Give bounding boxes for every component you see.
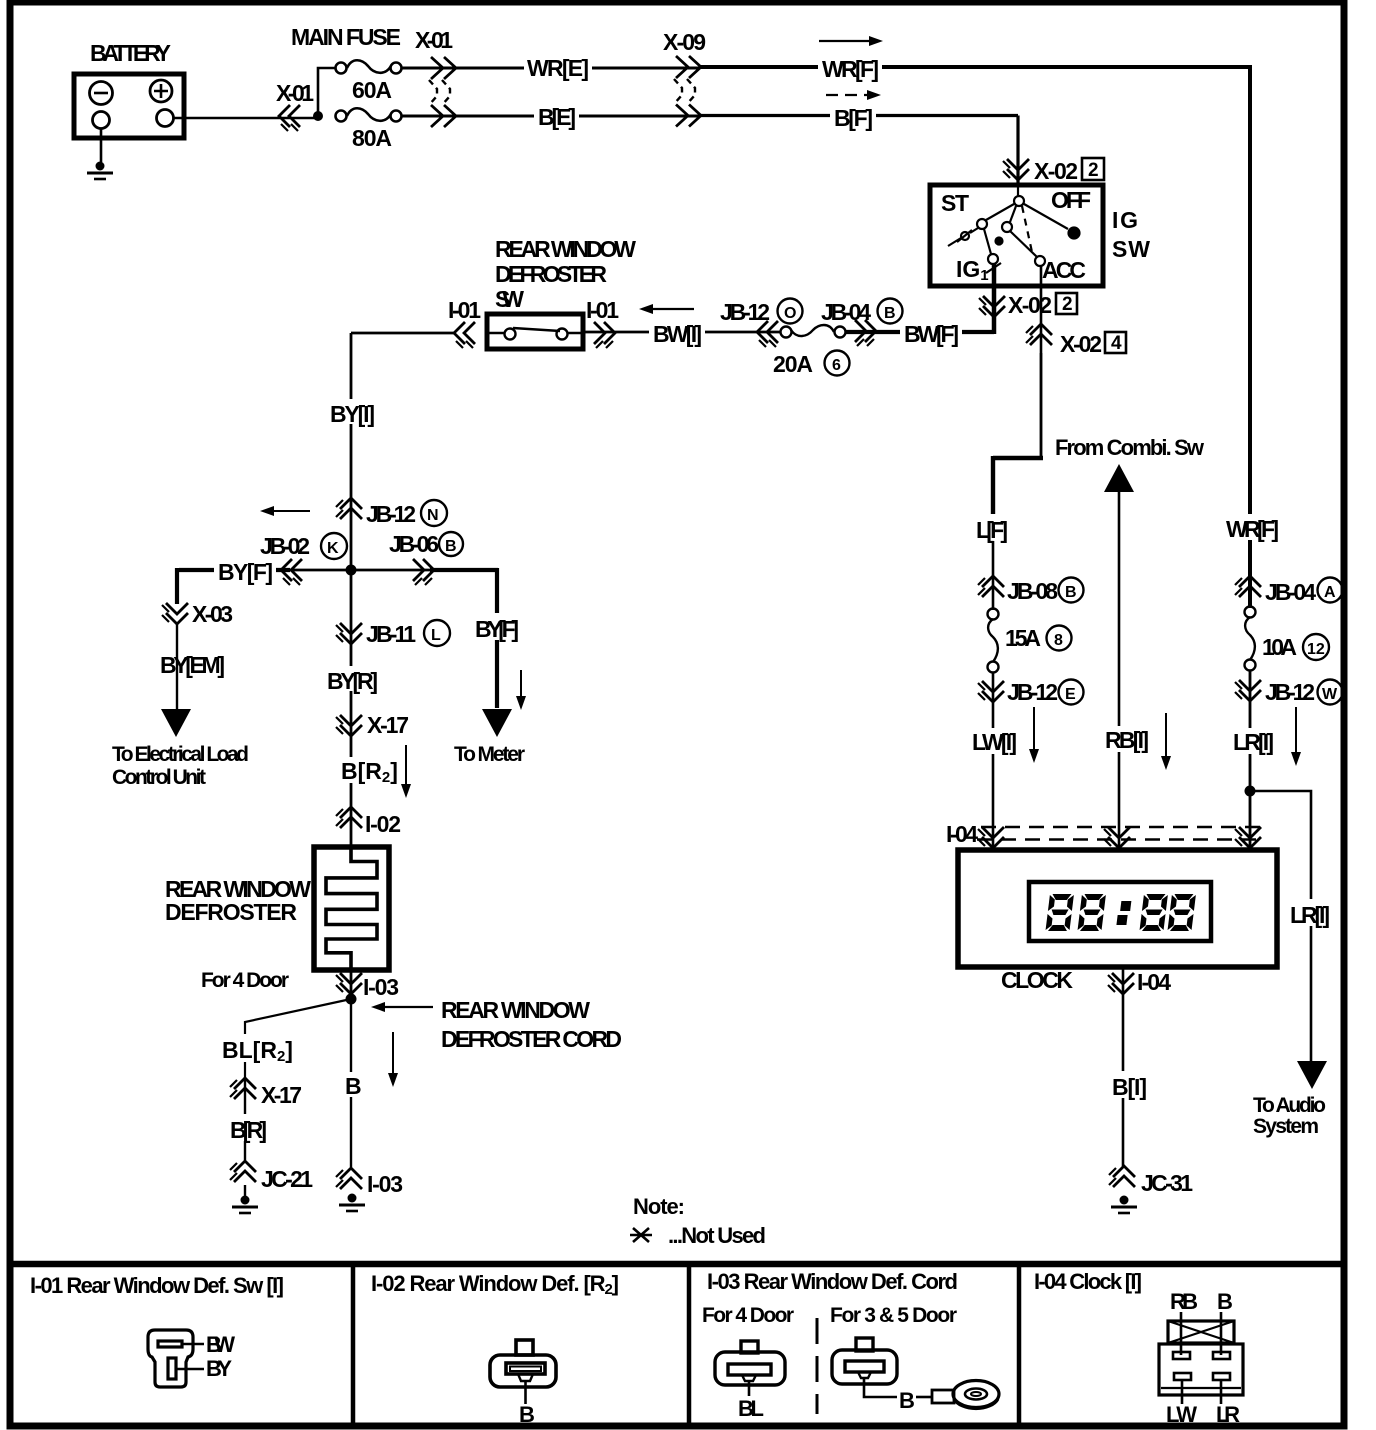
svg-text:B: B [1065,584,1077,601]
connector I-02 [336,807,362,828]
ground (I-03) [339,1194,365,1212]
svg-text:To Meter: To Meter [454,743,525,766]
svg-text:B: B [445,538,457,555]
svg-text:I-04: I-04 [946,821,978,847]
fuse 60A [336,60,402,73]
svg-text:RB: RB [1170,1289,1198,1314]
arrow down right of B[R2] [405,745,407,786]
svg-text:REAR WINDOW: REAR WINDOW [495,236,636,262]
svg-text:LR[I]: LR[I] [1290,902,1330,928]
wire LR[I] to audio [1250,791,1311,1062]
dashed divider in I-03 panel [816,1318,819,1414]
svg-text:BATTERY: BATTERY [90,40,171,66]
wire junction up to 60A fuse [318,68,336,118]
arrow over WR[F] [819,40,871,42]
svg-text:CLOCK: CLOCK [1001,967,1073,993]
svg-text:B: B [345,1073,362,1099]
right branch to meter [495,568,499,708]
switch SW1 rear window defroster [487,314,583,349]
connector X-01 (battery side) [279,105,300,131]
svg-text:B: B [1217,1289,1233,1314]
svg-text:BW[I]: BW[I] [653,321,702,347]
wire B[E] row [402,115,700,118]
svg-text:JB-12: JB-12 [1265,679,1315,705]
wire label RB[I] [1101,726,1152,753]
svg-text:X-02: X-02 [1034,158,1078,184]
ring terminal [932,1381,999,1409]
connector I-01 pinout icon [148,1330,204,1387]
svg-text:LW: LW [1166,1402,1197,1427]
svg-text:JC-21: JC-21 [261,1166,313,1192]
svg-text:DEFROSTER CORD: DEFROSTER CORD [441,1026,622,1052]
wire B to I-03 ground [350,999,352,1167]
wire label BY[F] right [471,613,521,642]
svg-text:JB-11: JB-11 [366,621,416,647]
connector X-02 [2] (top) [1003,159,1029,180]
svg-text:60A: 60A [352,77,392,103]
svg-text:X-17: X-17 [261,1082,302,1108]
connector JB-12 (E) [992,672,995,850]
svg-text:To Audio: To Audio [1253,1094,1326,1117]
ground G1 (battery) [87,162,113,180]
wire label LW[I] [968,728,1020,755]
wire label BW[F] [900,319,962,347]
svg-text:B: B [519,1402,535,1427]
svg-text:B[E]: B[E] [538,104,576,130]
clock 88:88 digits [1045,894,1196,931]
clock U1 box [958,850,1277,967]
connector I-04 (below clock) [1122,967,1125,1168]
wire L[F] from X-02[4] [1040,353,1043,456]
svg-text:WR[E]: WR[E] [527,55,589,81]
svg-text:15A: 15A [1005,625,1041,651]
connector JB-11 (L) [336,623,362,644]
svg-text:...Not Used: ...Not Used [668,1223,766,1248]
connector X-03 [162,603,188,624]
svg-text:E: E [1065,686,1076,703]
wire label WR[E] [524,55,592,81]
wire battery positive to junction [174,117,318,120]
wire label B[E] [534,104,579,130]
svg-text:80A: 80A [352,125,392,151]
svg-text:To Electrical Load: To Electrical Load [112,743,249,766]
svg-text:A: A [1324,584,1336,601]
ground (JC-21) [244,1185,246,1197]
wire BY[R] [350,570,353,847]
left branch to electrical load [175,568,179,604]
ground (JC-31) [1111,1196,1137,1214]
svg-text:I-01 Rear Window Def. Sw [I]: I-01 Rear Window Def. Sw [I] [30,1273,284,1298]
connector I-03 icon (3 & 5 door) [832,1338,931,1397]
svg-text:JB-06: JB-06 [389,531,439,557]
wire label BL[R2] [218,1034,293,1065]
svg-text:I-01: I-01 [448,297,481,323]
svg-text:L[F]: L[F] [976,517,1008,543]
svg-text:I-03 Rear Window Def. Cord: I-03 Rear Window Def. Cord [707,1269,958,1294]
wire battery negative to ground [100,128,103,162]
svg-text:From Combi. Sw: From Combi. Sw [1055,435,1205,460]
connector I-03 (lower) [336,1168,362,1189]
wire label L[F] [972,514,1012,543]
svg-text:N: N [427,507,439,524]
connector I-02 pinout icon [490,1340,556,1404]
connector JB-04 (A) [1235,576,1261,597]
svg-text:JB-12: JB-12 [1007,679,1058,705]
connector JB-12 (W) [1249,670,1252,850]
svg-text:12: 12 [1307,641,1325,658]
svg-text:JB-12: JB-12 [720,299,770,325]
svg-text:BY[EM]: BY[EM] [160,652,225,678]
connector JB-08 (B) [978,576,1004,597]
wire label B[R] [226,1114,270,1143]
fuse 80A [336,108,402,121]
rear window defroster heater element [314,847,389,970]
wire BY[EM] [176,624,178,710]
svg-text:BY[R]: BY[R] [327,668,378,694]
connector X-17 [336,715,362,736]
svg-text:8: 8 [1054,632,1063,649]
svg-text:For 3 & 5 Door: For 3 & 5 Door [830,1304,957,1327]
svg-text:LR: LR [1216,1402,1240,1427]
wire label BY[I] [326,399,378,427]
clock display bezel [1029,882,1211,941]
connector I-03 [350,970,353,999]
wire label LR[I] [1229,728,1277,755]
svg-text:X-09: X-09 [663,29,706,55]
fuse 15A (8) [988,609,999,673]
wire ACC output [1040,266,1043,458]
wire BW[F] [846,330,994,334]
svg-text:OFF: OFF [1051,187,1091,213]
connector I-03 icon (4 door) [715,1341,785,1396]
svg-text:X-02: X-02 [1008,292,1052,318]
chevron BY[F] left [281,559,302,585]
connector X-02 [2] (below IG SW) [979,296,1005,317]
svg-text:20A: 20A [773,351,813,377]
bus wire BY [285,569,434,572]
svg-text:I-04 Clock [I]: I-04 Clock [I] [1034,1269,1142,1294]
svg-text:REAR WINDOW: REAR WINDOW [441,997,590,1023]
node junction I-03 [346,994,357,1005]
connector JB-12 (O) chevron [757,321,778,347]
svg-text:B: B [899,1388,915,1413]
svg-text:System: System [1253,1115,1319,1138]
svg-text:BY[F]: BY[F] [475,616,519,642]
svg-text:BL: BL [738,1396,764,1421]
arrow to defroster sw [652,308,694,310]
connector JC-31 [1109,1166,1135,1187]
connector JB-12 (N) [336,498,362,519]
IG SW internal contacts [948,186,1080,273]
node junction BY bus [346,565,357,576]
svg-text:B[R]: B[R] [230,1117,267,1143]
svg-text:SW: SW [1112,236,1150,262]
ignition switch IG SW box [930,185,1103,286]
connector I-01 left chevron [454,322,475,348]
svg-text:BW[F]: BW[F] [904,321,959,347]
svg-text:Note:: Note: [633,1194,685,1219]
wire B[F] [700,116,1018,187]
battery B1 [74,74,184,138]
svg-text:BW: BW [206,1332,235,1357]
wire BL[R2] diagonal [245,999,351,1077]
svg-text:DEFROSTER: DEFROSTER [495,261,607,287]
svg-text:MAIN FUSE: MAIN FUSE [291,24,401,50]
svg-text:B[R2]: B[R2] [341,758,398,786]
connector JC-21 [230,1161,256,1182]
dashed arrow over B[F] [826,94,868,96]
fuse 20A (6) [781,325,846,338]
svg-text:ACC: ACC [1042,257,1086,283]
svg-text:LW[I]: LW[I] [972,729,1017,755]
svg-text:RB[I]: RB[I] [1105,727,1149,753]
svg-text:10A: 10A [1262,634,1297,660]
wire label LR[I] (audio) [1286,899,1333,928]
svg-text:IG: IG [1112,207,1138,233]
svg-text:WR[F]: WR[F] [822,56,879,82]
svg-text:I-02 Rear Window Def. [R2]: I-02 Rear Window Def. [R2] [371,1271,619,1298]
svg-text:SW: SW [495,286,524,312]
wire label B [340,1072,362,1099]
svg-text:JB-04: JB-04 [821,299,871,325]
svg-text:L: L [431,627,441,644]
svg-text:K: K [327,540,339,557]
wire label B[F] [830,103,876,131]
node junction LR [1245,786,1256,797]
wire label BW[I] [649,320,705,347]
arrow to audio system [1297,1061,1327,1089]
wire WR[F] top [700,65,1250,608]
svg-text:I-02: I-02 [365,811,401,837]
svg-text:LR[I]: LR[I] [1233,729,1274,755]
svg-text:X-01: X-01 [415,27,453,53]
svg-text:JB-08: JB-08 [1007,578,1058,604]
connector JB-04 (B) chevron [855,320,876,346]
svg-text:I-04: I-04 [1137,969,1171,995]
wire label B[R2] [337,757,398,786]
wire BW[I] [583,331,780,334]
connector X-17 (lower) [244,1077,246,1160]
svg-text:JB-02: JB-02 [260,533,310,559]
arrow to meter [482,709,512,737]
svg-text:O: O [784,305,796,322]
wire WR[E] row [402,67,700,70]
svg-text:2: 2 [1088,160,1099,181]
svg-text:B: B [884,305,896,322]
svg-text:B[I]: B[I] [1112,1074,1147,1100]
rear window defroster cord callout [384,1006,433,1008]
fuse 10A (12) [1245,607,1256,671]
svg-text:BY[I]: BY[I] [330,401,375,427]
svg-text:For 4 Door: For 4 Door [201,969,289,992]
svg-text:2: 2 [1062,294,1073,315]
svg-text:BY: BY [206,1356,232,1381]
wire label WR[F] [818,54,882,82]
svg-text:4: 4 [1111,333,1122,354]
svg-text:X-17: X-17 [367,712,409,738]
arrow left of JB-12 [272,510,310,512]
connector X-02 [4] [1026,324,1052,345]
svg-text:6: 6 [832,357,841,374]
svg-text:JB-04: JB-04 [1265,579,1316,605]
svg-text:I-01: I-01 [586,297,619,323]
wire IG1 output [992,264,997,334]
svg-text:I-03: I-03 [363,974,399,1000]
svg-text:ST: ST [941,190,969,216]
arrow to electrical load control unit [161,709,191,737]
svg-text:BY[F]: BY[F] [218,559,273,585]
node junction at main fuse [313,111,323,121]
svg-text:W: W [1322,686,1338,703]
svg-text:DEFROSTER: DEFROSTER [165,899,297,925]
chevron JB-06 right [413,559,434,585]
wire label BY[F] left [214,557,276,585]
svg-text:X-03: X-03 [192,601,233,627]
wire from switch to BY[I] [351,333,456,572]
svg-text:JB-12: JB-12 [366,501,416,527]
svg-text:WR[F]: WR[F] [1226,516,1279,542]
wire label WR[F] right [1222,514,1282,542]
svg-text:X-02: X-02 [1060,331,1102,357]
wire label B[I] [1108,1071,1151,1100]
svg-text:B[F]: B[F] [834,105,873,131]
svg-text:IG1: IG1 [956,256,989,284]
svg-text:For 4 Door: For 4 Door [702,1304,794,1327]
wire label BY[R] [323,666,381,694]
svg-text:JC-31: JC-31 [1141,1170,1193,1196]
svg-text:Control Unit: Control Unit [112,766,206,789]
connector I-01 right chevron [594,322,615,348]
svg-text:I-03: I-03 [367,1171,403,1197]
svg-text:X-01: X-01 [276,80,314,106]
